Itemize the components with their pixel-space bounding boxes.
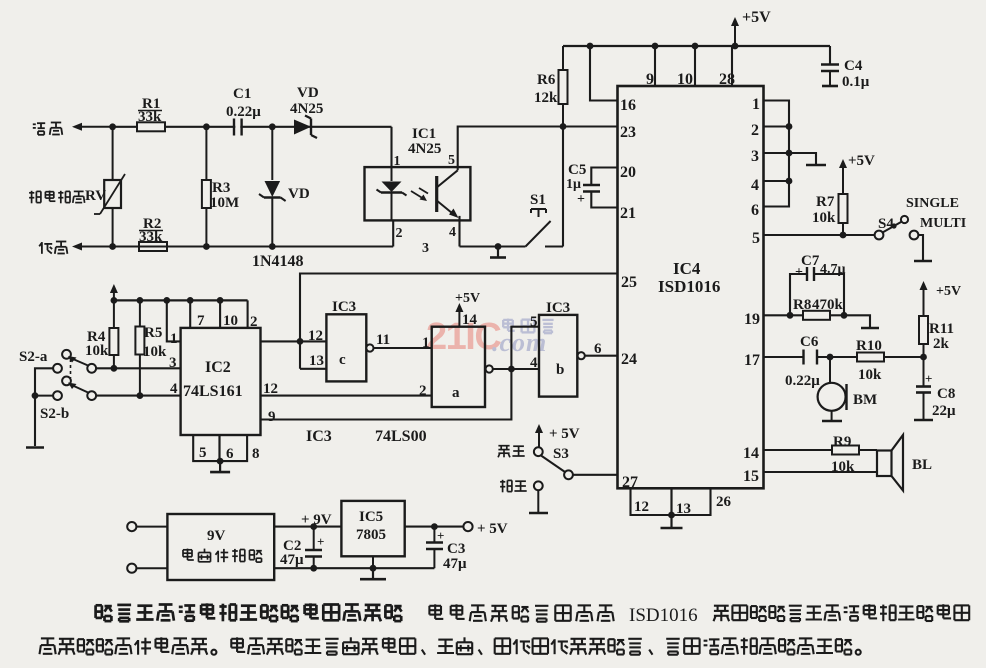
svg-text:11: 11: [376, 332, 390, 348]
svg-text:0.1μ: 0.1μ: [842, 74, 870, 90]
wire IC1 pin2 to red line: [392, 220, 394, 246]
gate IC3a box: [432, 327, 485, 407]
svg-text:ISD1016: ISD1016: [629, 605, 698, 626]
resistor R7: [842, 164, 844, 178]
capacitor C2: [313, 527, 315, 550]
svg-text:47μ: 47μ: [280, 552, 304, 568]
svg-text:IC3: IC3: [546, 300, 570, 316]
svg-text:+5V: +5V: [742, 9, 771, 26]
junction: [732, 43, 739, 50]
junction: [109, 123, 116, 130]
svg-text:21: 21: [620, 205, 636, 222]
wire IC1 pin1 from green line: [390, 127, 392, 167]
svg-text:6: 6: [226, 446, 234, 462]
svg-text:2: 2: [396, 226, 403, 241]
svg-text:6: 6: [751, 202, 759, 219]
input terminals: [127, 522, 136, 531]
wire pin3 to ground: [764, 152, 790, 154]
svg-text:9: 9: [268, 409, 276, 425]
svg-text:VD: VD: [297, 85, 319, 101]
capacitor C5: [591, 168, 617, 185]
svg-text:470k: 470k: [812, 297, 844, 313]
wire 9V output: [274, 526, 341, 528]
svg-text:47μ: 47μ: [443, 556, 467, 572]
svg-text:0.22μ: 0.22μ: [226, 104, 261, 120]
svg-text:BM: BM: [853, 392, 877, 408]
caption line 1 bold title: [96, 604, 102, 607]
svg-text:R9: R9: [833, 434, 851, 450]
label 录音: [500, 481, 505, 483]
wire IC4 pin27 from S3: [573, 474, 618, 476]
svg-text:IC1: IC1: [412, 126, 436, 142]
svg-text:C4: C4: [844, 58, 863, 74]
junction: [587, 43, 594, 50]
svg-text:4: 4: [530, 355, 538, 371]
resistor R6: [562, 46, 564, 70]
svg-text:4.7μ: 4.7μ: [820, 262, 846, 277]
op-amp U2 IC2 74LS161 box: [181, 328, 261, 435]
wire IC1 pin5 up and right to IC4 pin23: [458, 127, 618, 171]
svg-text:C8: C8: [937, 386, 955, 402]
op-amp U4 IC4 ISD1016 box: [618, 86, 764, 488]
wire pin4 to S2-b: [96, 395, 181, 397]
wire pin15: [764, 471, 878, 473]
varistor RV: [112, 127, 114, 180]
wire IC1 pin4 down: [458, 216, 460, 247]
svg-text:20: 20: [620, 164, 636, 181]
svg-text:74LS00: 74LS00: [375, 428, 427, 445]
switch S2-b: [53, 391, 62, 400]
wire green line: [113, 126, 392, 128]
svg-text:1: 1: [394, 154, 401, 169]
watermark 21IC.com logo: [426, 316, 554, 358]
junction: [203, 123, 210, 130]
svg-text:16: 16: [620, 97, 636, 114]
svg-text:0.22μ: 0.22μ: [785, 373, 820, 389]
svg-text:C1: C1: [233, 86, 251, 102]
wire S2 common to ground: [35, 368, 53, 446]
wire IC2 pin12 to gate a pin2: [261, 395, 432, 397]
wire rail to IC4 pin16: [590, 46, 618, 101]
capacitor C4: [829, 46, 831, 64]
svg-text:+ 5V: + 5V: [477, 521, 508, 537]
svg-text:S1: S1: [530, 192, 546, 208]
svg-text:12k: 12k: [534, 90, 558, 106]
wire pin10: [219, 300, 221, 328]
ground: [495, 243, 502, 250]
svg-text:25: 25: [621, 274, 637, 291]
label 放音: [498, 445, 509, 447]
diode VD 4N25 (input LED protection): [294, 120, 311, 135]
junction: [652, 43, 659, 50]
svg-text:13: 13: [309, 353, 324, 369]
power +5V rail: [563, 45, 830, 47]
svg-text:C3: C3: [447, 541, 465, 557]
wire red line: [113, 245, 394, 247]
svg-text:IC4: IC4: [673, 259, 701, 278]
svg-text:10k: 10k: [143, 344, 167, 360]
wire IC2 pin9 feedback: [261, 369, 512, 420]
svg-text:4N25: 4N25: [290, 101, 323, 117]
svg-text:23: 23: [620, 124, 636, 141]
wire gate c pin13: [300, 368, 326, 370]
svg-text:S2-b: S2-b: [40, 406, 69, 422]
svg-text:12: 12: [634, 499, 649, 515]
junction: [187, 297, 194, 304]
op-amp U1 IC1 4N25 optocoupler box: [365, 167, 471, 220]
caption line 1 rest: [429, 605, 441, 607]
speaker BL: [877, 451, 892, 477]
wire pin14: [764, 449, 833, 451]
svg-text:4: 4: [751, 177, 759, 194]
light arrows: [411, 191, 424, 199]
wire S1 to pin23 node: [562, 127, 564, 247]
svg-text:5: 5: [448, 153, 455, 168]
svg-text:9V: 9V: [207, 528, 226, 544]
svg-text:13: 13: [676, 501, 691, 517]
switch S2-a: [53, 364, 62, 373]
wire gate a out node: [493, 368, 539, 370]
capacitor C8: [923, 357, 925, 386]
capacitor C7: [790, 274, 807, 315]
svg-text:5: 5: [530, 314, 538, 330]
junction: [269, 123, 276, 130]
svg-text:BL: BL: [912, 457, 932, 473]
junction: [137, 297, 144, 304]
svg-text:74LS161: 74LS161: [183, 383, 243, 400]
svg-text:4N25: 4N25: [408, 141, 441, 157]
svg-text:ISD1016: ISD1016: [658, 277, 720, 296]
wire pin4 to S1: [460, 245, 526, 247]
svg-text:R8: R8: [793, 297, 811, 313]
svg-text:24: 24: [621, 351, 637, 368]
svg-text:12: 12: [308, 328, 323, 344]
svg-text:1N4148: 1N4148: [252, 253, 304, 270]
mechanical link dashes: [70, 359, 72, 378]
svg-text:+5V: +5V: [936, 284, 961, 299]
power +5V rail IC2: [114, 299, 248, 301]
ground: [668, 512, 675, 519]
9V adapter box: [167, 514, 274, 580]
node green-line terminal 绿线: [33, 123, 36, 125]
junction: [217, 297, 224, 304]
wire pin1 to rail: [167, 300, 181, 341]
wire pin5 to S4: [764, 234, 875, 236]
caption line 2: [41, 637, 54, 639]
svg-text:IC3: IC3: [332, 299, 356, 315]
svg-text:10M: 10M: [210, 195, 239, 211]
svg-text:VD: VD: [288, 186, 310, 202]
gate a output bubble: [486, 365, 493, 372]
svg-text:5: 5: [752, 230, 760, 247]
svg-text:IC2: IC2: [205, 359, 231, 376]
junction: [163, 297, 170, 304]
svg-text:22μ: 22μ: [932, 403, 956, 419]
wire 5V output: [405, 526, 464, 528]
svg-text:6: 6: [594, 341, 602, 357]
wire rail to pin9: [654, 46, 656, 86]
svg-text:3: 3: [751, 148, 759, 165]
wire IC4 pin25: [300, 274, 618, 369]
svg-text:+: +: [925, 371, 932, 386]
svg-text:17: 17: [744, 352, 760, 369]
svg-text:C5: C5: [568, 162, 586, 178]
svg-text:4: 4: [449, 225, 456, 240]
resistor R2: [139, 242, 167, 251]
svg-text:9: 9: [646, 71, 654, 88]
resistor R11: [923, 286, 925, 300]
wire pin4: [764, 180, 790, 182]
gate IC3b box: [539, 315, 577, 397]
svg-text:RV: RV: [85, 188, 106, 204]
wire pin19 to ground: [844, 315, 870, 327]
svg-text:33k: 33k: [138, 109, 162, 125]
svg-text:C6: C6: [800, 334, 819, 350]
svg-text:2: 2: [751, 122, 759, 139]
gate b output bubble pin 6: [578, 352, 585, 359]
junction: [269, 243, 276, 250]
label 接电话线: [29, 192, 34, 194]
IC2 bottom tab pins 5 6 8: [193, 435, 247, 461]
wire ground return: [274, 567, 434, 569]
svg-text:R7: R7: [816, 194, 835, 210]
svg-text:28: 28: [719, 71, 735, 88]
wire rail to pin10: [694, 46, 696, 86]
node red-line terminal 红线: [41, 242, 43, 254]
svg-text:2: 2: [419, 383, 427, 399]
op-amp U5 IC5 7805 box: [341, 501, 404, 556]
svg-text:S2-a: S2-a: [19, 349, 48, 365]
IC4 bottom tab pins 12 13 26: [631, 488, 711, 515]
svg-text:c: c: [339, 352, 346, 368]
diode VD 1N4148: [271, 127, 273, 180]
phototransistor inside IC1: [435, 176, 438, 212]
svg-text:3: 3: [422, 241, 429, 256]
svg-text:+ 5V: + 5V: [549, 426, 580, 442]
microphone BM: [829, 357, 831, 383]
resistor R10: [857, 353, 884, 362]
svg-text:R3: R3: [212, 180, 230, 196]
svg-text:2: 2: [250, 314, 258, 330]
svg-text:7805: 7805: [356, 527, 386, 543]
svg-text:7: 7: [197, 313, 205, 329]
svg-text:+5V: +5V: [848, 153, 875, 169]
resistor R3: [205, 127, 207, 180]
resistor R8: [803, 311, 830, 320]
junction: [203, 243, 210, 250]
LED inside IC1: [391, 167, 393, 181]
svg-text:+: +: [437, 528, 444, 543]
svg-text:a: a: [452, 385, 460, 401]
ground: [217, 458, 224, 465]
junction: [560, 123, 567, 130]
svg-text:1μ: 1μ: [566, 177, 581, 192]
capacitor C6: [805, 349, 815, 366]
svg-text:S4: S4: [878, 216, 894, 232]
svg-text:10k: 10k: [858, 367, 882, 383]
svg-text:1: 1: [422, 335, 430, 351]
capacitor C3: [433, 527, 435, 542]
resistor R1: [137, 122, 165, 131]
wire node to gate b pin5: [511, 327, 539, 369]
svg-text:14: 14: [743, 445, 759, 462]
svg-text:12: 12: [263, 381, 278, 397]
junction: [692, 43, 699, 50]
svg-text:R5: R5: [144, 325, 162, 341]
wire rail to pin28: [731, 46, 733, 86]
svg-text:10k: 10k: [812, 210, 836, 226]
svg-text:5: 5: [199, 445, 207, 461]
wire pin19 R8 net: [764, 314, 804, 316]
gate IC3c box: [326, 314, 366, 381]
svg-text:IC5: IC5: [359, 509, 383, 525]
svg-text:10: 10: [223, 313, 238, 329]
svg-text:10k: 10k: [85, 343, 109, 359]
wire pin2: [764, 125, 790, 127]
wire pin17 net: [764, 356, 804, 358]
resistor R5: [139, 300, 141, 326]
resistor R9: [832, 446, 859, 455]
label 电源适配器: [183, 549, 192, 551]
svg-text:+ 9V: + 9V: [301, 512, 332, 528]
svg-text:+5V: +5V: [455, 291, 480, 306]
svg-text:R11: R11: [929, 321, 954, 337]
resistor R4: [113, 300, 115, 328]
svg-text:C7: C7: [801, 253, 820, 269]
junction: [111, 297, 118, 304]
svg-text:+: +: [317, 534, 324, 549]
pin 14 power: [458, 311, 460, 327]
svg-text:SINGLE: SINGLE: [906, 196, 959, 211]
svg-text:IC3: IC3: [306, 428, 332, 445]
svg-text:1: 1: [170, 331, 178, 347]
svg-text:8: 8: [252, 446, 260, 462]
svg-text:+: +: [577, 192, 585, 207]
svg-text:b: b: [556, 362, 564, 378]
switch S3: [538, 429, 540, 448]
wire gate b out to IC4 pin24: [585, 355, 618, 357]
power +5V arrow: [734, 22, 736, 46]
svg-text:19: 19: [744, 311, 760, 328]
power arrow: [113, 289, 115, 300]
svg-text:R6: R6: [537, 72, 556, 88]
wire pins 1-6 bus: [764, 101, 790, 207]
svg-text:S3: S3: [553, 446, 569, 462]
gate c output bubble pin 11: [366, 344, 373, 351]
wire pin7: [189, 300, 191, 328]
capacitor C1: [235, 118, 240, 136]
IC5 ground pin: [372, 556, 374, 568]
switch S4: [875, 231, 884, 240]
svg-text:MULTI: MULTI: [920, 216, 966, 231]
wire IC2 out to gate c pin12: [261, 340, 327, 342]
svg-text:1: 1: [752, 96, 760, 113]
wire pin3 to S2-a: [96, 367, 181, 369]
wire pin2: [247, 300, 249, 328]
svg-text:R10: R10: [856, 338, 882, 354]
wire S4 to ground: [918, 235, 923, 260]
svg-text:26: 26: [716, 494, 732, 510]
svg-text:14: 14: [462, 312, 478, 328]
wire gate c out to gate a pin1: [374, 347, 432, 349]
svg-text:33k: 33k: [139, 229, 163, 245]
svg-text:2k: 2k: [933, 336, 950, 352]
svg-text:15: 15: [743, 468, 759, 485]
svg-text:10: 10: [677, 71, 693, 88]
junction: [109, 243, 116, 250]
